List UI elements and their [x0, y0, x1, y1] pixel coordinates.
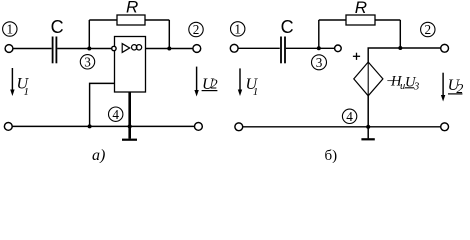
svg-text:1: 1: [24, 86, 30, 98]
output junction dot (circuit a): [167, 47, 171, 51]
svg-text:4: 4: [346, 109, 353, 124]
wire R down to top node (circuit b): [399, 20, 401, 48]
wire terminal1 to C: [13, 48, 52, 50]
op-amp triangle symbol: [122, 44, 130, 53]
svg-text:C: C: [51, 17, 64, 37]
terminal 2 (circuit b): [441, 44, 449, 52]
ground bar (circuit a): [122, 139, 137, 141]
U2 arrow (circuit a): [194, 67, 198, 97]
node 3 label (circled 3, circuit a): [80, 54, 94, 69]
U2 label underlined (circuit a): [202, 76, 218, 93]
wire diamond bottom to rail and ground: [367, 96, 369, 139]
plus sign of source: [353, 53, 360, 60]
svg-text:R: R: [126, 0, 138, 17]
svg-text:б): б): [325, 148, 338, 163]
node 4 label (circled 4, circuit b): [342, 109, 356, 124]
U1 arrow (circuit a): [10, 68, 14, 96]
resistor R (circuit a): [117, 15, 145, 25]
svg-text:1: 1: [253, 86, 258, 98]
junction dot lower input on rail: [88, 124, 92, 128]
svg-text:2: 2: [425, 22, 432, 37]
node 3 junction dot (circuit a): [87, 47, 91, 51]
U2 underline (circuit a): [202, 90, 218, 92]
terminal bottom-right (circuit a): [195, 123, 203, 131]
svg-text:a): a): [92, 147, 105, 163]
U1 label (circuit a): [17, 76, 30, 98]
wire R left lead (circuit b): [319, 19, 346, 21]
svg-text:3: 3: [316, 55, 323, 70]
junction dot rail (circuit b): [366, 125, 370, 129]
open terminal end (node 3 side): [335, 45, 342, 52]
node 4 label (circled 4, circuit a): [109, 107, 123, 122]
terminal bottom-right (circuit b): [441, 123, 449, 131]
ground bar (circuit b): [361, 138, 374, 140]
capacitor C (circuit b): [281, 37, 285, 64]
terminal 1 (circuit a): [5, 45, 13, 53]
op-amp common lead (thick): [128, 92, 131, 139]
node 3 label (circled 3, circuit b): [312, 55, 327, 70]
wire op-amp output to terminal 2: [146, 48, 194, 50]
U1 arrow (circuit b): [238, 68, 242, 96]
wire through diamond: [367, 62, 369, 96]
U1 label (circuit b): [246, 76, 259, 98]
source value label -HuU3: [386, 73, 420, 92]
op-amp infinity symbol: [132, 45, 142, 50]
wire terminal1 to C (circuit b): [238, 47, 280, 49]
node 1 label (circled 1, circuit b): [231, 22, 245, 37]
U2 underline (circuit b): [448, 93, 462, 95]
svg-text:3: 3: [413, 82, 419, 93]
wire R right lead (circuit b): [375, 19, 400, 21]
node 3 junction dot (circuit b): [317, 46, 321, 50]
svg-text:3: 3: [84, 54, 91, 69]
U2 label underlined (circuit b): [448, 77, 464, 97]
terminal 1 (circuit b): [230, 44, 238, 52]
junction dot common on rail: [128, 124, 132, 128]
svg-text:2: 2: [193, 22, 200, 37]
svg-text:1: 1: [7, 22, 14, 37]
node 1 label (circled 1, circuit a): [3, 22, 17, 37]
dependent source E1 diamond (circuit b): [354, 62, 383, 96]
U3 underline in source label: [405, 87, 414, 89]
capacitor C (circuit a): [53, 37, 57, 64]
wire C to op-amp input: [57, 48, 112, 50]
node 2 label (circled 2, circuit b): [421, 22, 435, 37]
wire node3 up to R (circuit b): [318, 20, 320, 48]
op-amp input circle: [112, 46, 116, 50]
wire R left lead: [89, 19, 117, 21]
junction dot top (circuit b): [398, 46, 402, 50]
U2 arrow (circuit b): [441, 73, 445, 102]
wire node3 up to R: [88, 20, 90, 49]
bottom rail wire (circuit a): [12, 125, 194, 127]
terminal 2 (circuit a): [193, 45, 201, 53]
terminal bottom-left (circuit a): [4, 123, 12, 131]
svg-text:C: C: [281, 17, 294, 37]
svg-text:2: 2: [456, 82, 463, 97]
svg-text:1: 1: [234, 22, 241, 37]
op-amp U1 body (circuit a): [115, 37, 146, 93]
wire R right lead: [145, 19, 169, 21]
wire C to open node (circuit b): [286, 47, 335, 49]
bottom rail wire (circuit b): [243, 126, 441, 128]
svg-text:4: 4: [112, 107, 119, 122]
node 2 label (circled 2, circuit a): [189, 22, 203, 37]
wire op-amp lower input to ground rail: [90, 83, 115, 126]
resistor R (circuit b): [346, 15, 375, 25]
svg-text:R: R: [355, 0, 367, 17]
terminal bottom-left (circuit b): [235, 123, 243, 131]
top wire corner to terminal 2 (circuit b): [368, 48, 441, 62]
wire R down to output node: [168, 20, 170, 49]
